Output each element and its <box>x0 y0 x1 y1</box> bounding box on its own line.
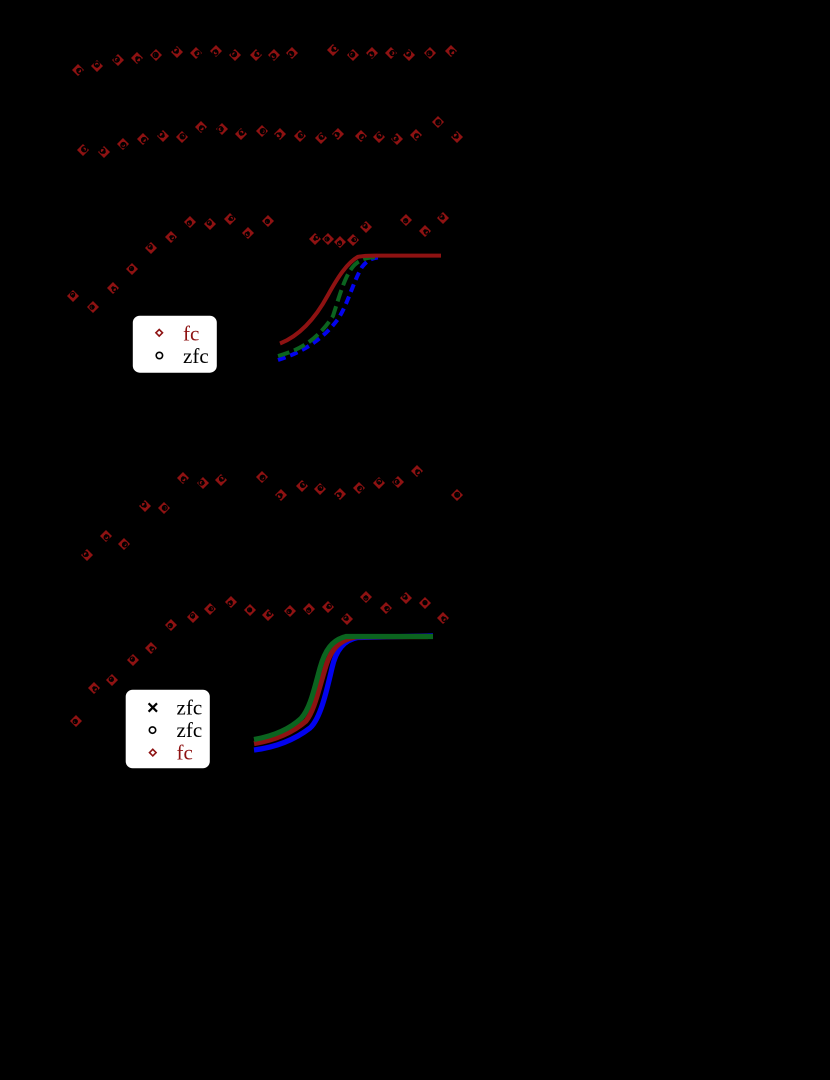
scatter series: top fc row 1 (dark red open diamonds, black zfc overprint) <box>74 46 455 74</box>
scatter series: middle subplot fc points <box>69 214 447 311</box>
curve: lower blue solid sigmoid <box>254 636 433 750</box>
curve: upper green dashed sigmoid <box>278 257 376 356</box>
svg-text:fc: fc <box>177 741 193 765</box>
legend lower: zfc x marker <box>149 703 157 711</box>
legend upper: fc diamond marker <box>156 330 163 337</box>
svg-text:fc: fc <box>183 321 199 345</box>
legend upper: zfc circle marker <box>156 352 162 358</box>
legend lower: fc diamond marker <box>150 749 157 756</box>
svg-text:zfc: zfc <box>177 718 203 742</box>
svg-text:zfc: zfc <box>183 344 209 368</box>
svg-text:zfc: zfc <box>177 696 203 720</box>
scatter series: lower subplot fc row 2 <box>72 593 447 725</box>
legend box upper (fc / zfc) <box>133 316 217 373</box>
scatter series: top fc row 2 <box>79 118 461 156</box>
curve: lower green solid sigmoid with plateau <box>254 637 433 740</box>
legend lower: zfc circle marker <box>149 727 155 733</box>
scatter series: lower subplot fc row 1 <box>83 467 461 559</box>
curve: upper blue dashed sigmoid <box>278 258 378 361</box>
curve: upper dark red solid sigmoid with plateau <box>280 256 441 344</box>
curve: lower dark red solid sigmoid <box>254 637 428 744</box>
legend box lower (zfc / zfc / fc) <box>126 690 210 769</box>
